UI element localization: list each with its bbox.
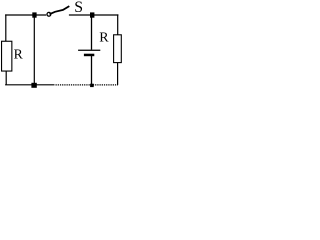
svg-text:R: R bbox=[99, 30, 109, 45]
svg-text:R: R bbox=[14, 46, 24, 61]
wire battery branch upper vertical bbox=[91, 15, 93, 50]
switch S blade bbox=[50, 6, 70, 14]
wire bottom dashed segment bbox=[56, 84, 118, 86]
battery short plate (-) bbox=[84, 54, 94, 57]
battery long plate (+) bbox=[78, 49, 100, 51]
resistor R1 (left) bbox=[2, 41, 12, 71]
node junction bottom-right bbox=[90, 84, 94, 87]
wire right vertical lower bbox=[117, 63, 119, 85]
wire left vertical lower bbox=[5, 71, 7, 85]
wire battery branch lower vertical bbox=[91, 56, 93, 84]
wire bottom solid segment bbox=[5, 84, 54, 86]
node junction bottom-left bbox=[31, 83, 36, 88]
node junction top-right bbox=[90, 12, 94, 17]
node junction top-left bbox=[32, 12, 36, 17]
switch S contact circle bbox=[47, 12, 51, 16]
wire left vertical upper bbox=[5, 14, 7, 41]
svg-text:S: S bbox=[74, 0, 83, 16]
wire top-right horizontal bbox=[69, 14, 119, 16]
wire top-left horizontal bbox=[5, 14, 46, 16]
wire right vertical upper bbox=[117, 14, 119, 34]
wire middle vertical bbox=[33, 15, 35, 85]
resistor R2 (right) bbox=[114, 35, 122, 63]
